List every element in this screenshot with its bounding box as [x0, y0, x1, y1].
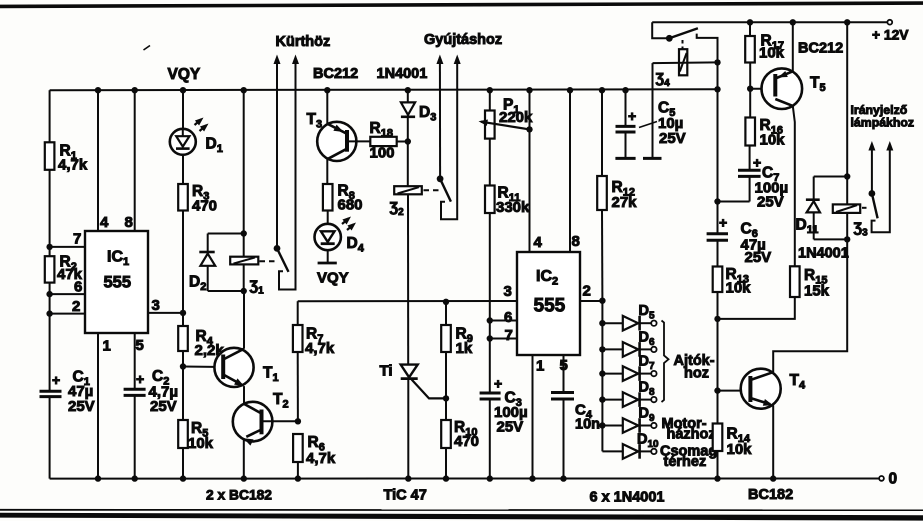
svg-text:6 x 1N4001: 6 x 1N4001 [590, 490, 665, 506]
IC2 pin 2 stub [580, 283, 602, 302]
capacitor C6 47u 25V [707, 215, 772, 267]
+12V supply rail (top right) [652, 21, 887, 23]
svg-text:3: 3 [152, 297, 160, 314]
svg-text:Ti: Ti [380, 363, 393, 380]
timer IC2 555 box [517, 252, 580, 355]
wire T4 emitter to rail [770, 405, 776, 482]
wire R18 to D3 node [397, 141, 408, 143]
transistor T2 BC182 [233, 391, 289, 446]
transistor T3 BC212 (PNP) [307, 87, 357, 161]
resistor R7 4,7k [293, 325, 335, 357]
svg-text:2: 2 [72, 298, 80, 315]
relay J3 dashed link [862, 207, 870, 209]
resistor R16 10k [745, 117, 785, 149]
resistor R3 470 [178, 183, 217, 215]
svg-text:1N4001: 1N4001 [377, 66, 428, 82]
svg-text:10k: 10k [726, 280, 752, 297]
diode D3 1N4001 [401, 102, 436, 123]
svg-text:+: + [719, 215, 727, 231]
svg-text:2 x BC182: 2 x BC182 [206, 488, 272, 503]
relay coil J4 (vertical) [656, 49, 688, 89]
resistor R2 47k [45, 254, 83, 284]
resistor R11 330k [485, 185, 530, 217]
node P1 wiper tap on pin4 wire [526, 126, 532, 132]
svg-text:25V: 25V [745, 249, 772, 266]
diode D9 1N4001 [599, 406, 656, 433]
capacitor C1 47u 25V [40, 369, 95, 416]
resistor R13 10k [713, 266, 751, 297]
svg-text:hoz: hoz [684, 366, 709, 382]
svg-text:6: 6 [504, 309, 512, 326]
relay coil J3 [833, 204, 868, 238]
svg-text:10n: 10n [575, 417, 600, 433]
IC1 pin 2 stub [46, 298, 85, 317]
svg-text:lámpákhoz: lámpákhoz [851, 116, 915, 130]
resistor R8 680 [323, 183, 363, 214]
label Iranyjelzo lampakhoz [851, 103, 915, 130]
wire J1 branch vertical [241, 87, 247, 294]
page frame: bottom thin rule [0, 509, 923, 511]
IC2 pin 1 wire [529, 355, 544, 482]
svg-text:470: 470 [192, 198, 217, 215]
transistor T5 BC212 (PNP) [750, 68, 825, 109]
diode D5 1N4001 [599, 303, 656, 330]
diode D2 [189, 234, 244, 294]
switch J3 contact (indicator lamps) [868, 141, 893, 232]
svg-text:220k: 220k [499, 109, 533, 126]
wire R9-R10 branch [443, 299, 449, 482]
resistor R4 2,2k [178, 326, 224, 359]
wire J3 main vertical [844, 19, 850, 243]
svg-text:10k: 10k [759, 45, 785, 62]
label bracket Ajtokhoz [662, 321, 715, 403]
svg-text:27k: 27k [612, 194, 638, 211]
svg-text:Gyújtáshoz: Gyújtáshoz [424, 32, 502, 48]
svg-text:8: 8 [572, 233, 580, 250]
scan mark [144, 46, 151, 51]
switch J1 contact (horn) [274, 55, 300, 290]
wire T5 collector to R15 [793, 106, 795, 266]
label Motorhazhoz [662, 416, 716, 443]
svg-text:TiC 47: TiC 47 [384, 488, 427, 504]
svg-text:470: 470 [454, 433, 479, 450]
svg-text:térhez: térhez [664, 454, 707, 470]
LED D1 VQY [170, 118, 223, 156]
terminal +12V [872, 20, 909, 43]
relay coil J2 [390, 186, 422, 218]
wire left vertical branch [49, 90, 51, 478]
wire right main branch [714, 62, 720, 481]
resistor R15 15k [790, 266, 830, 299]
svg-text:5: 5 [136, 337, 144, 354]
svg-text:15k: 15k [804, 283, 830, 300]
svg-text:10k: 10k [727, 441, 753, 458]
svg-text:+: + [753, 155, 761, 171]
resistor R5 10k [178, 420, 213, 452]
capacitor C3 100u 25V [480, 376, 528, 436]
resistor R9 1k [441, 325, 473, 357]
svg-text:házhoz: házhoz [667, 427, 716, 443]
wire T5 emitter to +12V [790, 19, 796, 71]
IC1 pin 7 stub [46, 231, 85, 251]
wire R12 branch [599, 87, 606, 304]
page frame: top border bar [0, 1, 923, 8]
wire D1-R3 branch [180, 87, 186, 482]
svg-text:25V: 25V [659, 130, 686, 147]
svg-text:BC182: BC182 [748, 487, 793, 503]
svg-text:25V: 25V [68, 398, 95, 415]
svg-text:2: 2 [583, 283, 591, 300]
relay J4 dashed link [682, 40, 684, 49]
resistor R12 27k [597, 176, 637, 211]
IC2 pin 5 wire and C4 [560, 355, 568, 482]
svg-text:25V: 25V [497, 419, 524, 436]
svg-text:+: + [136, 371, 144, 387]
node IC1 pin3 junction [180, 310, 186, 316]
svg-text:4,7k: 4,7k [305, 340, 335, 357]
svg-text:+ 12V: + 12V [872, 28, 909, 43]
wire P1-R11-C3 branch [487, 87, 493, 482]
switch J2 contact (ignition) [436, 55, 460, 220]
thyristor Ti TiC47 [380, 363, 447, 399]
svg-text:VQY: VQY [317, 270, 349, 287]
relay J1 dashed link [260, 260, 277, 262]
wire T1 collector to J1 [243, 291, 245, 349]
LED D4 VQY [315, 211, 365, 287]
svg-text:4,7k: 4,7k [306, 450, 336, 467]
wire diode ladder column [601, 301, 603, 452]
IC1 pin 6 stub [46, 279, 85, 298]
svg-text:7: 7 [73, 231, 81, 248]
resistor R10 470 [441, 419, 479, 450]
svg-text:+: + [628, 108, 636, 124]
resistor R14 10k [713, 424, 752, 459]
potentiometer P1 220k [479, 97, 534, 139]
svg-text:25V: 25V [757, 194, 784, 211]
svg-text:+: + [494, 376, 502, 392]
wire J4 coil left branch [643, 63, 662, 158]
svg-text:4,7k: 4,7k [58, 157, 88, 174]
diode D8 1N4001 [599, 380, 656, 407]
diode D7 1N4001 [599, 354, 656, 381]
IC2 pin 8 wire [567, 87, 580, 252]
svg-text:BC212: BC212 [798, 41, 843, 57]
switch J4 contact [652, 22, 717, 62]
svg-text:10k: 10k [760, 132, 786, 149]
svg-text:8: 8 [125, 214, 133, 231]
wire J4 coil horizontal [653, 59, 721, 65]
capacitor C5 10u 25V [615, 87, 685, 158]
wire top rail VQY [50, 88, 718, 91]
relay coil J1 [230, 257, 264, 297]
wire bottom rail 0V [50, 478, 880, 480]
wire R16 to T5 base node [747, 63, 753, 118]
IC2 pin 4 wire [526, 87, 542, 252]
capacitor C7 100u 25V [738, 155, 788, 211]
relay J2 dashed link [424, 189, 439, 191]
IC2 pin 6 stub [487, 309, 517, 326]
svg-text:100: 100 [370, 145, 395, 162]
IC1 pin 5 wire [132, 333, 144, 482]
svg-text:5: 5 [560, 357, 568, 374]
wire R15 bottom to R13 node [718, 297, 795, 319]
page frame: bottom border bar [0, 513, 923, 521]
svg-text:330k: 330k [496, 199, 530, 216]
svg-text:VQY: VQY [168, 66, 201, 83]
wire R17 to +12V rail [747, 19, 753, 36]
resistor R6 4,7k [293, 434, 336, 482]
wire T1 emitter to T2 [243, 386, 245, 404]
svg-text:Kürthöz: Kürthöz [276, 34, 331, 50]
wire T3 collector to R8 [326, 159, 328, 184]
resistor R17 10k [745, 33, 784, 63]
svg-text:1: 1 [536, 358, 544, 375]
transistor T1 BC182 [183, 348, 279, 387]
wire J3 to T4 collector [773, 239, 847, 372]
svg-text:1: 1 [103, 338, 111, 355]
resistor R18 100 (horizontal) [370, 120, 397, 162]
svg-text:7: 7 [505, 327, 513, 344]
svg-text:4: 4 [534, 234, 543, 251]
IC1 pin 4 wire [95, 87, 109, 231]
wire R7-R6 branch [297, 301, 299, 421]
svg-text:555: 555 [534, 296, 566, 317]
IC1 pin 8 wire [125, 87, 138, 231]
svg-text:0: 0 [889, 471, 898, 488]
diode D10 1N4001 [602, 431, 659, 458]
svg-text:1N4001: 1N4001 [798, 246, 849, 262]
IC1 pin 3 stub [148, 297, 183, 314]
svg-text:3: 3 [504, 283, 512, 300]
svg-text:25V: 25V [150, 398, 177, 415]
svg-text:BC212: BC212 [313, 66, 358, 82]
op-amp/timer IC1 555 box [85, 231, 148, 333]
wire T3 base to R18 [347, 140, 370, 142]
transistor T4 BC182 [718, 369, 806, 409]
svg-text:555: 555 [104, 274, 132, 292]
IC1 pin 1 wire [95, 333, 111, 482]
svg-text:+: + [52, 372, 60, 388]
IC2 pin 7 stub [487, 327, 517, 344]
svg-text:10k: 10k [188, 435, 214, 452]
diode D6 1N4001 [599, 329, 656, 356]
terminal 0 [879, 471, 897, 488]
svg-text:6: 6 [74, 279, 82, 296]
wire T2 base to R6 node [262, 418, 302, 424]
label Csomagterhez [660, 444, 717, 471]
wire D3-J2-Ti branch [405, 87, 412, 482]
svg-text:4: 4 [100, 214, 109, 231]
wire IC1.3 to IC2.3 horizontal [298, 300, 517, 302]
capacitor C4 10n [551, 393, 600, 433]
node T1 base junction [180, 363, 186, 369]
diode D11 1N4001 [796, 177, 848, 240]
resistor R1 4,7k [45, 142, 88, 173]
wire T2 emitter to rail [241, 438, 247, 482]
wire C7 branch horizontal [718, 146, 750, 202]
svg-text:680: 680 [338, 197, 363, 214]
svg-text:1k: 1k [456, 340, 473, 357]
capacitor C2 4,7u 25V [124, 368, 178, 415]
